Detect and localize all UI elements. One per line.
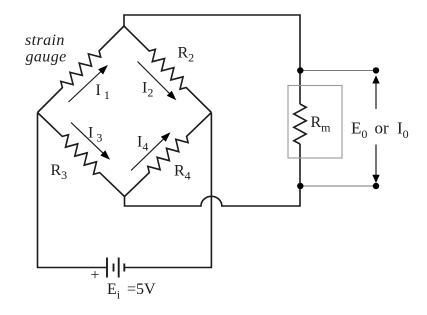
svg-text:strain: strain [25, 32, 65, 49]
svg-text:R2: R2 [178, 45, 195, 65]
wire left rail from left node down to battery loop [38, 113, 108, 268]
svg-text:Rm: Rm [311, 114, 332, 135]
node terminal dot output top [373, 67, 379, 73]
resistor Rm [294, 104, 306, 144]
wire top node stub and top rail to right [124, 15, 300, 71]
resistor R2 upper-right arm [124, 26, 211, 113]
current arrow I4 [131, 138, 165, 171]
Rm enclosure box [288, 86, 342, 159]
output arrow down (E0/I0) [375, 145, 377, 177]
node terminal dot output bottom [373, 183, 379, 189]
svg-text:gauge: gauge [26, 49, 67, 66]
svg-text:R4: R4 [174, 163, 191, 183]
svg-text:+: + [91, 267, 100, 284]
current arrow I2 [138, 62, 171, 95]
wire thin tap to output top [300, 70, 376, 72]
output arrow up (E0/I0) [375, 82, 377, 109]
svg-text:Ei=5V: Ei=5V [107, 281, 156, 302]
wire thin tap to output bottom [300, 185, 376, 187]
node junction dot top (bridge output +) [297, 67, 303, 73]
svg-text:R3: R3 [51, 162, 68, 182]
svg-text:I2: I2 [142, 80, 153, 100]
wire bottom node to Rm bottom junction with crossover hop [125, 186, 301, 206]
battery E_i [107, 258, 124, 278]
current arrow I3 [71, 123, 104, 155]
resistor R4 lower-right arm [125, 113, 212, 197]
svg-text:E0orI0: E0orI0 [351, 119, 409, 142]
wire right node rail down to battery loop [124, 113, 211, 268]
svg-text:I 1: I 1 [96, 82, 110, 102]
wire right rail through Rm (vertical segments) [299, 71, 301, 105]
node junction dot bottom (bridge output -) [297, 183, 303, 189]
svg-text:I4: I4 [137, 134, 148, 154]
resistor R3 lower-left arm [38, 113, 125, 197]
wire Rm bottom lead [299, 144, 301, 186]
resistor R1 (strain gauge) upper-left arm [38, 26, 125, 113]
current arrow I1 [69, 71, 103, 103]
